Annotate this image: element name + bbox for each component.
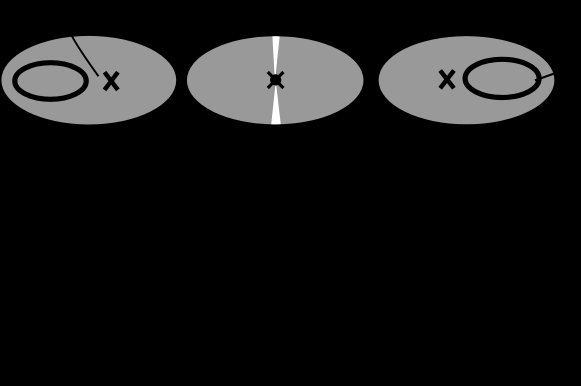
node point (dot) on surface 2: [270, 74, 281, 85]
marked point x on surface 1: [105, 72, 118, 90]
surface 3 (right gray ellipse): [379, 36, 555, 124]
loop curve on surface 1: [15, 63, 86, 100]
surface 2 (middle gray ellipse): [187, 36, 364, 124]
marked point x on surface 3: [440, 71, 454, 89]
surface 1 (left gray ellipse): [1, 36, 176, 125]
vanishing cycle wedge (bottom white cut on surface 2): [271, 81, 281, 127]
loop curve on surface 3: [465, 59, 539, 97]
marked point x on surface 2: [268, 72, 284, 88]
arc entering surface 1 from the boundary: [69, 30, 99, 76]
arc leaving surface 3 through the boundary: [535, 72, 559, 80]
vanishing cycle wedge (top white cut on surface 2): [272, 34, 280, 82]
